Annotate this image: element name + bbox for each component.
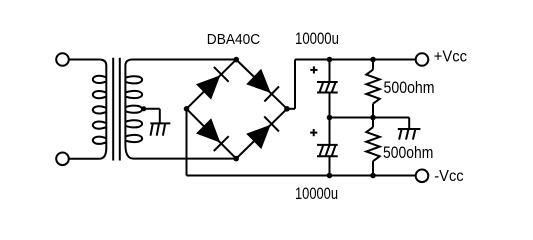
terminal primary bottom — [56, 153, 69, 166]
terminal primary top — [56, 53, 69, 66]
diode D4 — [247, 116, 279, 148]
bridge rectifier DBA40C edges — [187, 60, 288, 159]
wire primary bottom — [69, 158, 99, 160]
svg-text:500ohm: 500ohm — [384, 79, 435, 97]
svg-text:500ohm: 500ohm — [383, 144, 433, 163]
node bridge right — [284, 106, 290, 112]
diode D3 — [197, 119, 229, 151]
C2 polarity + — [310, 129, 317, 136]
wire -Vcc rail — [187, 175, 416, 177]
resistor R1 500ohm — [366, 70, 379, 104]
terminal +Vcc — [416, 53, 429, 66]
svg-text:-Vcc: -Vcc — [434, 168, 464, 185]
node bridge left — [184, 106, 190, 112]
node C1 top — [327, 57, 333, 63]
resistor R2 500ohm — [366, 127, 379, 161]
wire bridge right to +rail — [287, 108, 295, 110]
node center tap — [141, 106, 146, 111]
wire mid rail — [330, 117, 410, 119]
svg-text:+Vcc: +Vcc — [434, 48, 468, 65]
transformer T1 core — [112, 58, 114, 161]
terminal -Vcc — [416, 170, 429, 183]
ground (transformer center tap) — [150, 123, 170, 135]
wire secondary top to bridge — [132, 59, 237, 61]
wire bridge left to -rail — [186, 109, 188, 176]
node bridge bottom — [233, 156, 239, 162]
wire ground stem — [408, 118, 410, 130]
wire +Vcc rail — [295, 59, 416, 61]
node R2 bottom — [370, 173, 376, 179]
node C1/C2 mid — [327, 115, 333, 121]
node R1 top — [370, 57, 376, 63]
capacitor C1 10000u wires — [329, 60, 331, 83]
svg-text:DBA40C: DBA40C — [207, 31, 260, 48]
capacitor C2 plates — [317, 145, 338, 156]
transformer T1 secondary winding — [125, 60, 142, 159]
node bridge top — [233, 57, 239, 63]
capacitor C2 10000u wires — [329, 118, 331, 145]
ground (mid rail) — [398, 129, 421, 140]
C1 polarity + — [310, 66, 317, 73]
transformer T1 primary winding — [93, 60, 106, 159]
svg-text:10000u: 10000u — [295, 30, 339, 49]
node C2 bottom — [327, 173, 333, 179]
wire primary top — [69, 59, 100, 61]
node R1/R2 mid — [370, 115, 376, 121]
wire secondary bottom to bridge — [134, 158, 237, 160]
diode D1 — [197, 67, 229, 99]
svg-text:10000u: 10000u — [295, 185, 338, 204]
capacitor C1 plates — [317, 82, 338, 93]
wire center tap to ground — [144, 108, 160, 110]
diode D2 — [247, 70, 279, 102]
